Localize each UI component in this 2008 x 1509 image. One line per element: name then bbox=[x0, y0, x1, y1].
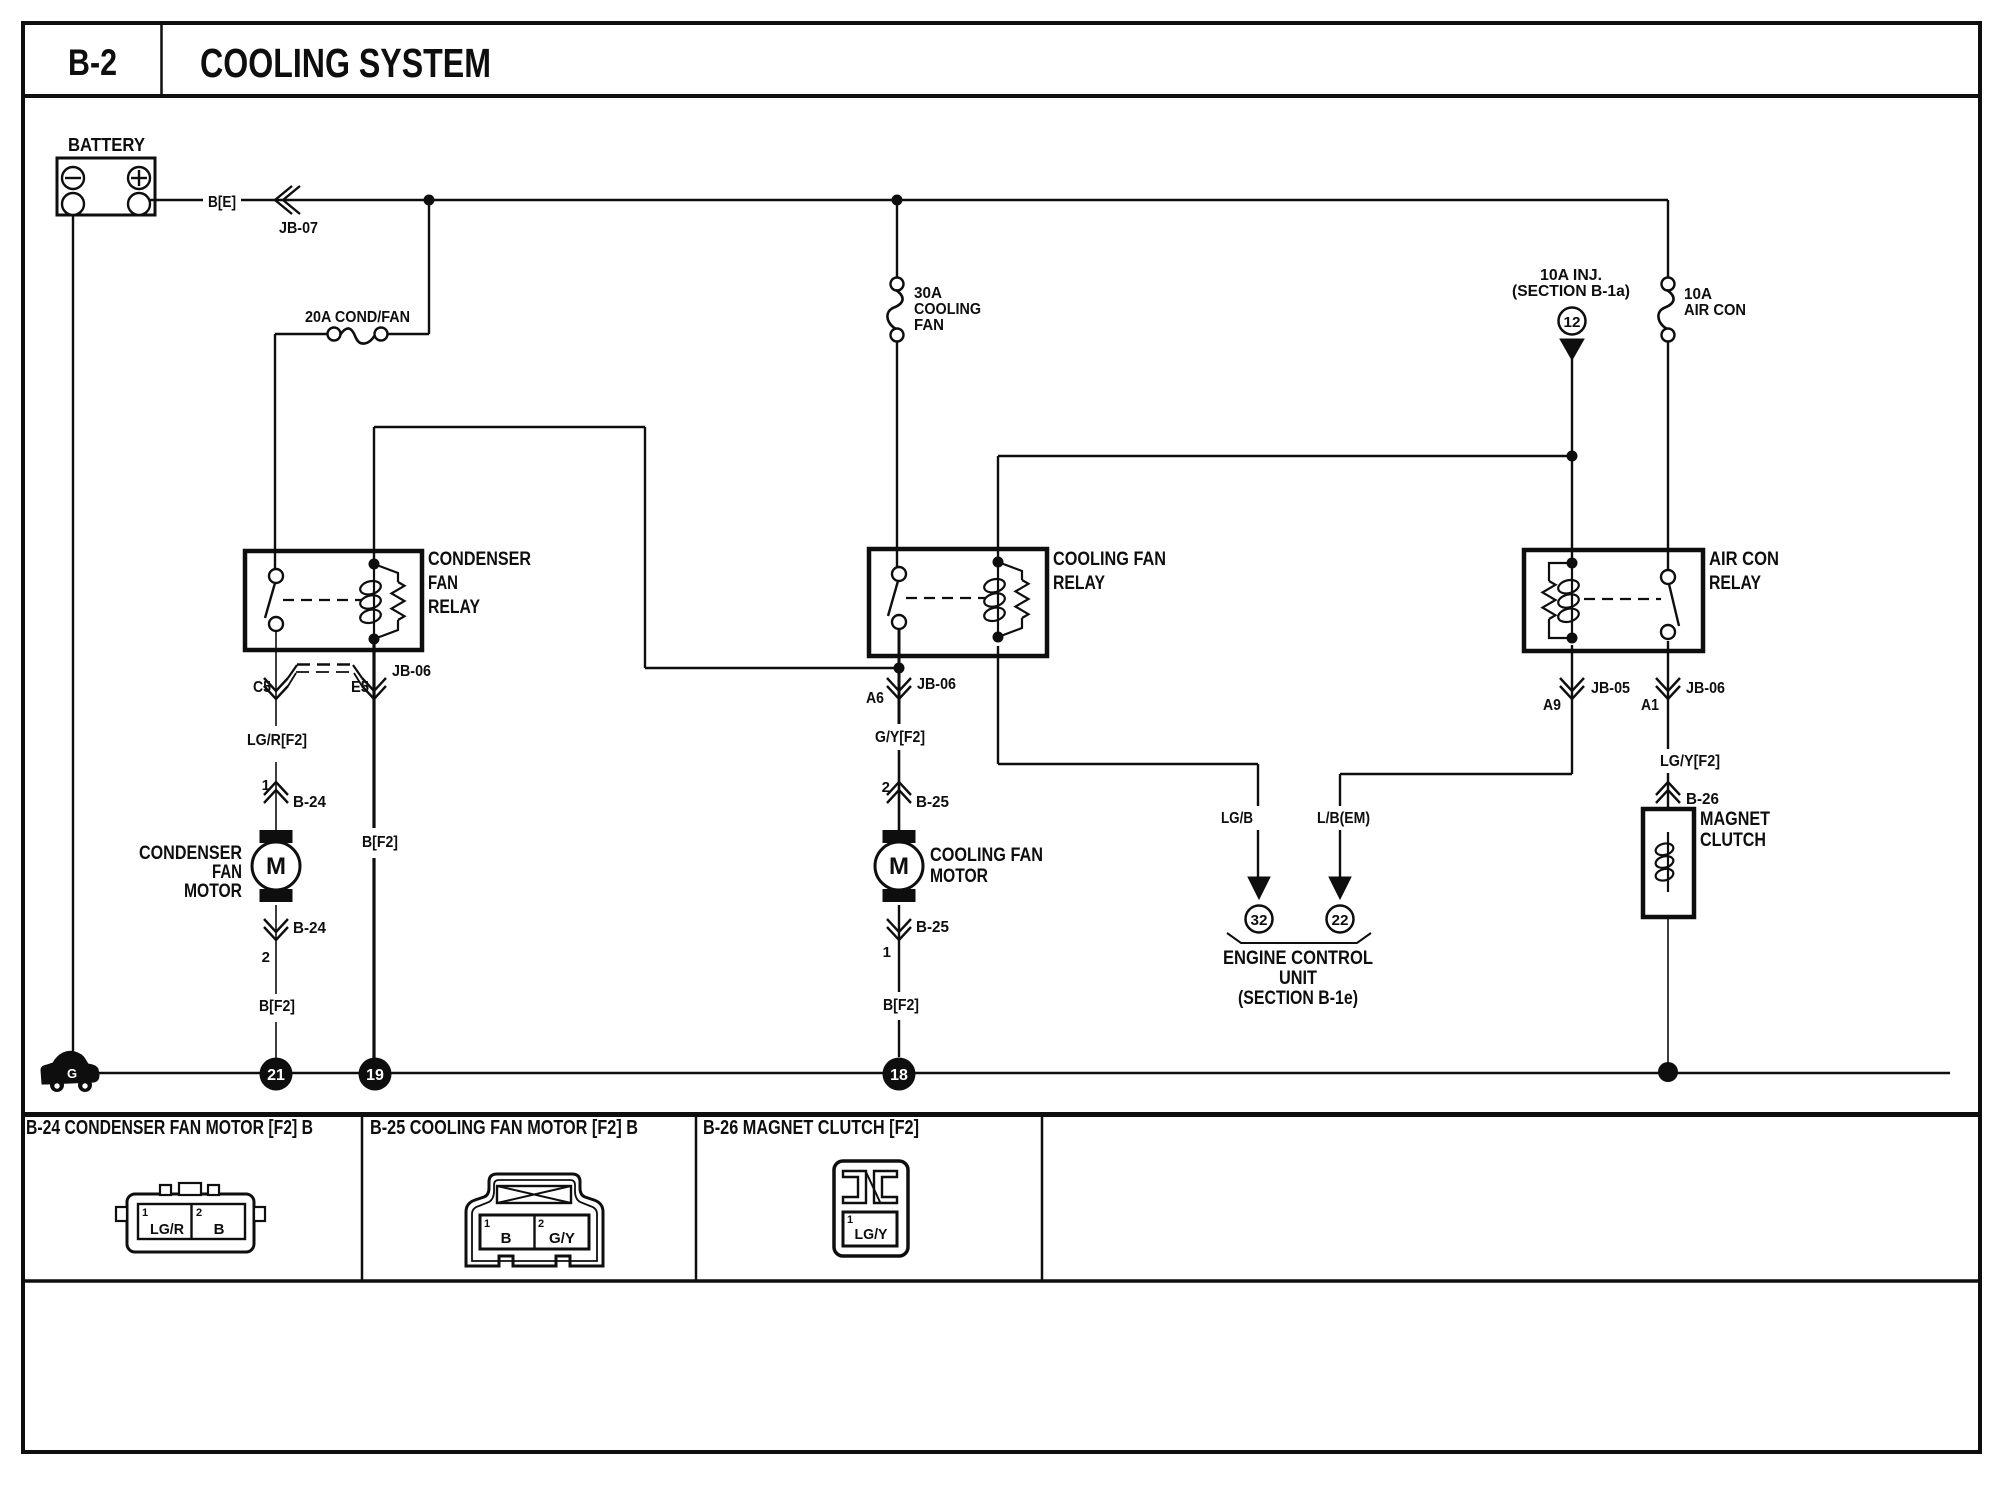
svg-text:A6: A6 bbox=[866, 690, 884, 707]
svg-text:CLUTCH: CLUTCH bbox=[1700, 830, 1766, 851]
svg-text:CONDENSER: CONDENSER bbox=[139, 843, 242, 864]
svg-text:RELAY: RELAY bbox=[428, 597, 480, 618]
svg-text:LG/B: LG/B bbox=[1221, 810, 1253, 827]
svg-text:B-24 CONDENSER FAN MOTOR [F2]: B-24 CONDENSER FAN MOTOR [F2] B bbox=[26, 1116, 313, 1139]
svg-text:FAN: FAN bbox=[914, 317, 944, 334]
svg-text:2: 2 bbox=[882, 779, 890, 796]
svg-text:L/B(EM): L/B(EM) bbox=[1317, 810, 1370, 827]
svg-text:LG/Y: LG/Y bbox=[855, 1226, 888, 1243]
svg-text:B-24: B-24 bbox=[293, 920, 326, 937]
svg-text:B: B bbox=[501, 1230, 512, 1247]
svg-text:20A COND/FAN: 20A COND/FAN bbox=[305, 309, 410, 326]
svg-text:2: 2 bbox=[196, 1207, 202, 1219]
svg-text:B-26: B-26 bbox=[1686, 791, 1719, 808]
svg-text:MAGNET: MAGNET bbox=[1700, 809, 1770, 830]
svg-text:B: B bbox=[214, 1221, 225, 1238]
svg-text:LG/R: LG/R bbox=[150, 1221, 184, 1238]
svg-text:RELAY: RELAY bbox=[1053, 573, 1105, 594]
svg-text:JB-06: JB-06 bbox=[1686, 680, 1725, 697]
svg-text:MOTOR: MOTOR bbox=[930, 866, 988, 887]
svg-text:B[F2]: B[F2] bbox=[883, 997, 919, 1014]
svg-text:FAN: FAN bbox=[212, 862, 242, 883]
svg-text:G/Y[F2]: G/Y[F2] bbox=[875, 729, 925, 746]
svg-text:FAN: FAN bbox=[428, 573, 458, 594]
svg-text:C5: C5 bbox=[253, 679, 271, 696]
svg-text:1: 1 bbox=[847, 1214, 853, 1226]
svg-text:B[E]: B[E] bbox=[208, 194, 236, 211]
svg-text:CONDENSER: CONDENSER bbox=[428, 549, 531, 570]
svg-text:12: 12 bbox=[1564, 314, 1581, 331]
svg-text:10A: 10A bbox=[1684, 286, 1712, 303]
svg-text:COOLING FAN: COOLING FAN bbox=[1053, 549, 1166, 570]
svg-text:22: 22 bbox=[1332, 912, 1349, 929]
svg-text:MOTOR: MOTOR bbox=[184, 881, 242, 902]
svg-text:B-24: B-24 bbox=[293, 794, 326, 811]
svg-text:(SECTION B-1a): (SECTION B-1a) bbox=[1512, 283, 1630, 300]
svg-text:19: 19 bbox=[366, 1067, 384, 1084]
svg-text:JB-06: JB-06 bbox=[917, 676, 956, 693]
svg-text:M: M bbox=[889, 853, 909, 880]
svg-text:32: 32 bbox=[1251, 912, 1268, 929]
svg-text:BATTERY: BATTERY bbox=[68, 135, 145, 155]
svg-text:B-25 COOLING FAN MOTOR [F2] B: B-25 COOLING FAN MOTOR [F2] B bbox=[370, 1116, 638, 1139]
svg-text:ENGINE CONTROL: ENGINE CONTROL bbox=[1223, 948, 1373, 969]
svg-text:1: 1 bbox=[142, 1207, 148, 1219]
svg-text:M: M bbox=[266, 853, 286, 880]
svg-text:18: 18 bbox=[890, 1067, 908, 1084]
svg-text:LG/Y[F2]: LG/Y[F2] bbox=[1660, 753, 1720, 770]
svg-text:E5: E5 bbox=[351, 679, 369, 696]
svg-text:COOLING: COOLING bbox=[914, 301, 981, 318]
svg-text:A9: A9 bbox=[1543, 697, 1561, 714]
svg-text:AIR CON: AIR CON bbox=[1684, 302, 1746, 319]
svg-text:AIR CON: AIR CON bbox=[1709, 549, 1779, 570]
svg-text:B[F2]: B[F2] bbox=[259, 998, 295, 1015]
svg-text:JB-07: JB-07 bbox=[279, 220, 318, 237]
svg-text:1: 1 bbox=[484, 1218, 490, 1230]
svg-text:G/Y: G/Y bbox=[549, 1230, 575, 1247]
svg-text:10A INJ.: 10A INJ. bbox=[1540, 267, 1602, 284]
svg-text:1: 1 bbox=[262, 777, 270, 794]
svg-text:G: G bbox=[67, 1066, 77, 1081]
svg-text:A1: A1 bbox=[1641, 697, 1659, 714]
svg-text:COOLING FAN: COOLING FAN bbox=[930, 845, 1043, 866]
svg-text:30A: 30A bbox=[914, 285, 942, 302]
svg-text:JB-05: JB-05 bbox=[1591, 680, 1630, 697]
svg-text:RELAY: RELAY bbox=[1709, 573, 1761, 594]
svg-text:(SECTION B-1e): (SECTION B-1e) bbox=[1238, 988, 1358, 1009]
svg-text:JB-06: JB-06 bbox=[392, 663, 431, 680]
svg-text:B-26 MAGNET CLUTCH [F2]: B-26 MAGNET CLUTCH [F2] bbox=[703, 1116, 919, 1139]
svg-text:21: 21 bbox=[267, 1067, 285, 1084]
svg-text:B-25: B-25 bbox=[916, 919, 949, 936]
svg-text:B-25: B-25 bbox=[916, 794, 949, 811]
svg-text:B-2: B-2 bbox=[68, 42, 117, 83]
svg-text:2: 2 bbox=[262, 949, 270, 966]
svg-text:UNIT: UNIT bbox=[1279, 968, 1317, 989]
svg-text:LG/R[F2]: LG/R[F2] bbox=[247, 732, 307, 749]
svg-text:COOLING SYSTEM: COOLING SYSTEM bbox=[200, 40, 491, 86]
svg-text:2: 2 bbox=[538, 1218, 544, 1230]
svg-text:1: 1 bbox=[883, 944, 891, 961]
svg-text:B[F2]: B[F2] bbox=[362, 834, 398, 851]
